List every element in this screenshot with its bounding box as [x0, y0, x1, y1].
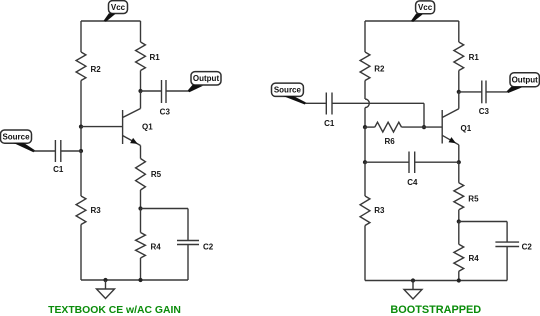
svg-text:R2: R2	[91, 65, 102, 74]
ground symbol right	[404, 281, 422, 300]
node emitter C4 right	[457, 160, 461, 164]
wire emitter node to R5 right	[458, 162, 460, 183]
resistor R1 right	[454, 42, 479, 71]
capacitor C3 left	[160, 80, 171, 117]
wire node to R4	[140, 209, 142, 233]
node input junction left	[79, 149, 83, 153]
svg-text:Output: Output	[193, 74, 220, 83]
wire emitter to C4 node right	[458, 145, 460, 162]
wire R2 to base node	[80, 81, 82, 127]
svg-text:Source: Source	[2, 133, 30, 142]
wire base node to input node	[80, 127, 82, 151]
svg-text:BOOTSTRAPPED: BOOTSTRAPPED	[390, 304, 481, 316]
node emitter divider left	[138, 206, 142, 210]
svg-text:C1: C1	[324, 119, 335, 128]
node base junction right	[422, 125, 426, 129]
wire bottom rail left circuit	[81, 279, 188, 281]
caption TEXTBOOK CE w/AC GAIN	[48, 305, 181, 316]
transistor Q1 left	[123, 109, 154, 146]
capacitor C2 right	[495, 242, 532, 251]
wire R6 left lead	[365, 126, 375, 128]
wire C2 branch top right	[459, 222, 507, 243]
svg-text:R1: R1	[469, 53, 480, 62]
wire C2 branch top left	[141, 209, 189, 241]
wire source to C1	[34, 150, 56, 152]
resistor R2	[76, 52, 101, 81]
wire node to C4 node	[364, 127, 366, 162]
Vcc power label right	[411, 1, 435, 22]
wire C1 across hop to corner	[332, 102, 424, 104]
wire C1 to node	[61, 150, 81, 152]
svg-text:TEXTBOOK CE w/AC GAIN: TEXTBOOK CE w/AC GAIN	[48, 305, 181, 316]
node R4 bottom right	[457, 278, 461, 282]
Output label right	[507, 73, 540, 93]
resistor R5 right	[454, 183, 479, 210]
wire C4 left lead	[365, 161, 409, 163]
resistor R4 right	[454, 244, 479, 271]
svg-text:Q1: Q1	[142, 123, 153, 132]
wire rail to R2 right	[364, 21, 366, 52]
node C4 left	[363, 160, 367, 164]
wire C2 to bottom rail right	[506, 247, 508, 281]
node collector left	[138, 89, 142, 93]
wire R3 to bottom rail right	[364, 226, 366, 281]
wire R4 to bottom rail right	[458, 271, 460, 280]
resistor R3	[76, 196, 101, 225]
wire R2 to hop	[364, 81, 366, 100]
wire R5 to node right	[458, 210, 460, 222]
wire R6 to base	[402, 126, 443, 128]
svg-text:Source: Source	[274, 86, 302, 95]
svg-text:R5: R5	[468, 194, 479, 203]
wire hop over input	[365, 99, 369, 108]
resistor R6	[375, 122, 402, 146]
wire collector to C3 right	[459, 91, 482, 93]
svg-text:Q1: Q1	[461, 124, 472, 133]
Source label right	[272, 83, 307, 104]
svg-text:R3: R3	[374, 206, 385, 215]
node R4 bottom left	[138, 278, 142, 282]
wire hop to R6 node	[364, 108, 366, 128]
ground symbol left	[97, 280, 115, 299]
wire top rail right circuit	[365, 20, 459, 22]
svg-text:Vcc: Vcc	[111, 3, 126, 12]
resistor R5 left	[136, 159, 162, 191]
svg-text:R4: R4	[151, 242, 162, 251]
svg-text:R5: R5	[151, 170, 162, 179]
svg-text:R6: R6	[384, 137, 395, 146]
capacitor C4	[407, 152, 418, 188]
Output label left	[188, 72, 221, 93]
wire bottom rail right circuit	[365, 280, 507, 282]
wire base left	[81, 126, 123, 128]
capacitor C1 left	[53, 140, 64, 174]
svg-text:C3: C3	[479, 107, 490, 116]
svg-text:R2: R2	[374, 64, 385, 73]
wire C4 to emitter	[415, 161, 459, 163]
capacitor C2 left	[177, 241, 214, 252]
node ground left	[103, 278, 107, 282]
wire node to R4 right	[458, 222, 460, 245]
wire top rail left circuit	[81, 20, 141, 22]
svg-text:C2: C2	[203, 242, 214, 251]
caption BOOTSTRAPPED	[390, 304, 481, 316]
node collector right	[457, 90, 461, 94]
wire C3 to output	[166, 90, 189, 92]
wire rail to R1 left	[140, 21, 142, 42]
svg-text:C3: C3	[160, 108, 171, 117]
wire R1 to collector node right	[458, 71, 460, 92]
Vcc power label left	[104, 1, 128, 22]
svg-text:Vcc: Vcc	[418, 3, 433, 12]
capacitor C1 right	[324, 93, 335, 129]
svg-text:C1: C1	[53, 165, 64, 174]
transistor Q1 right	[442, 109, 472, 145]
wire corner down to base node	[423, 103, 425, 127]
wire collector node to C3	[141, 90, 162, 92]
svg-text:R3: R3	[91, 206, 102, 215]
resistor R2 right	[360, 52, 385, 81]
svg-text:C4: C4	[407, 178, 418, 187]
wire R4 to bottom rail	[140, 258, 142, 280]
wire left branch top (rail to R2)	[80, 21, 82, 52]
wire C3 to output right	[486, 91, 508, 93]
node base tap left	[79, 125, 83, 129]
node ground right	[411, 278, 415, 282]
wire source to C1 right	[305, 102, 326, 104]
svg-text:C2: C2	[522, 243, 533, 252]
wire emitter to R5 left	[140, 146, 142, 159]
Source label left	[1, 130, 36, 152]
node R6 left right-circuit	[363, 125, 367, 129]
svg-text:Output: Output	[512, 76, 539, 85]
capacitor C3 right	[479, 81, 490, 117]
wire C2 to bottom rail left	[187, 245, 189, 281]
wire collector vertical right	[458, 92, 460, 109]
svg-text:R1: R1	[150, 53, 161, 62]
resistor R1 left	[136, 42, 161, 71]
wire rail to R1 right	[458, 21, 460, 42]
wire input node to R3	[80, 151, 82, 196]
wire R3 to bottom rail	[80, 225, 82, 281]
wire R1 to collector node	[140, 71, 142, 92]
node R5 R4 C2 right	[457, 219, 461, 223]
wire collector diag vertical	[140, 91, 142, 109]
svg-text:R4: R4	[469, 254, 480, 263]
resistor R3 right	[360, 196, 385, 226]
resistor R4 left	[136, 233, 162, 259]
wire R5 to emitter node	[140, 190, 142, 209]
wire C4 node to R3 right	[364, 162, 366, 196]
